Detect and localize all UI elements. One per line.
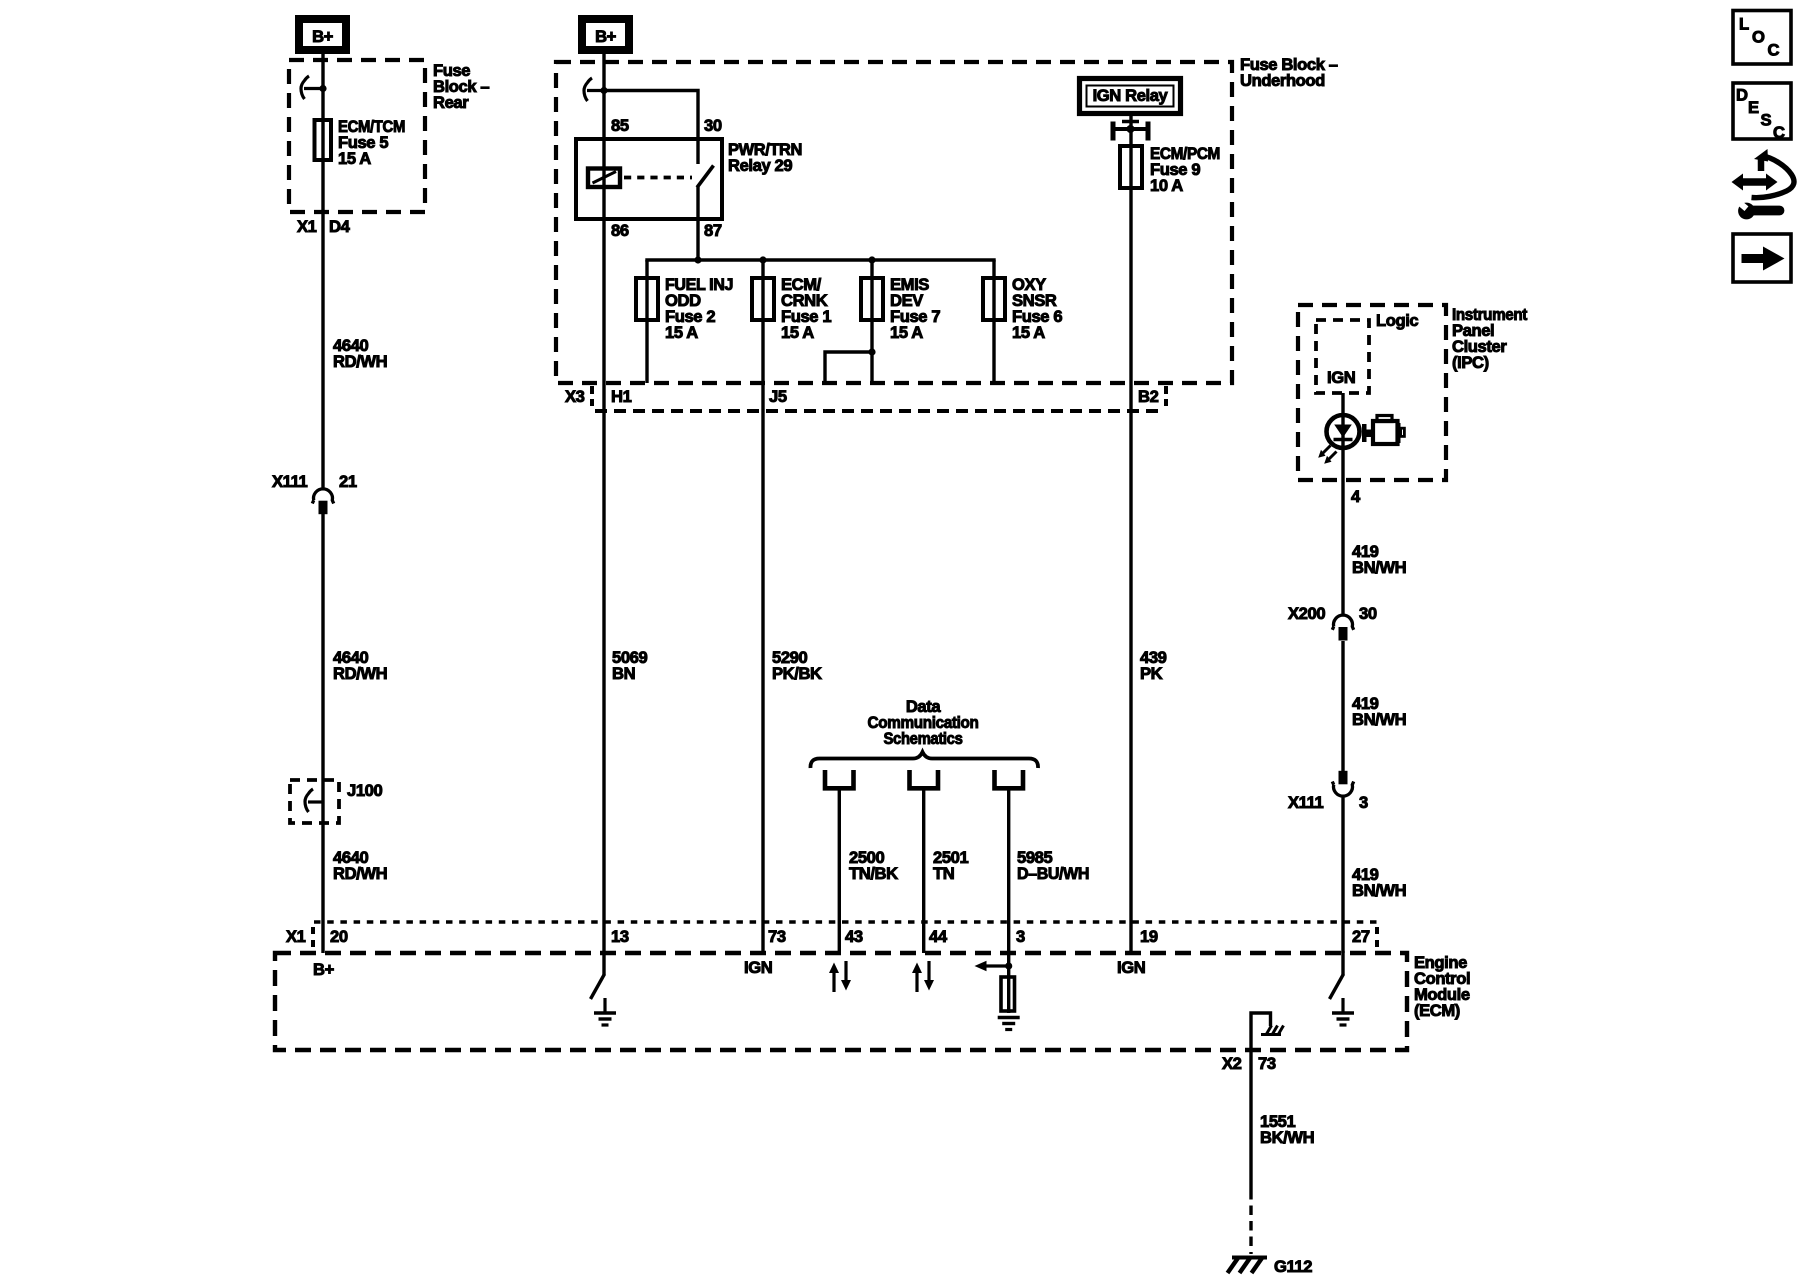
svg-text:30: 30 [704,116,722,135]
forward navigation box [1733,234,1791,282]
svg-text:TN: TN [933,864,954,883]
junction dot bus/fuse1 [759,256,766,263]
off-page connector bracket pin 43 [825,770,854,788]
svg-text:(ECM): (ECM) [1414,1001,1460,1020]
IGN Relay box [1080,79,1181,114]
svg-text:C: C [1768,40,1780,59]
svg-text:IGN: IGN [744,958,772,977]
svg-text:21: 21 [339,472,357,491]
splice hook inside J100 [305,789,313,812]
svg-text:X1: X1 [297,217,317,236]
DESC navigation box [1733,83,1791,139]
svg-text:RD/WH: RD/WH [333,352,387,371]
svg-text:73: 73 [1258,1054,1276,1073]
svg-text:73: 73 [768,927,786,946]
internal wire to case ground X2/73 [1251,1013,1271,1076]
wire data line to pin 44 (circuit 2501) [922,788,925,953]
wire stub to FUEL INJ fuse [645,260,648,383]
svg-text:O: O [1752,27,1765,46]
svg-text:D–BU/WH: D–BU/WH [1017,864,1089,883]
svg-text:PK/BK: PK/BK [772,664,822,683]
relay coil [588,169,620,188]
svg-text:20: 20 [330,927,348,946]
svg-text:S: S [1761,111,1772,130]
svg-text:10 A: 10 A [1150,176,1183,195]
fuse holder terminal below IGN relay [1111,122,1116,141]
wire stub to EMIS DEV fuse [870,260,873,383]
bidirectional data arrows at pin 43 [832,972,835,992]
case ground glyph inside ECM [1261,1033,1281,1036]
power feed B+ box (left) [299,19,346,50]
svg-text:IGN: IGN [1117,958,1145,977]
fuse ECM/PCM Fuse 9 10 A [1120,146,1142,188]
svg-text:L: L [1739,14,1749,33]
junction dot at B+ splice [319,85,326,92]
svg-text:E: E [1748,98,1759,117]
fuse ECM/CRNK Fuse 1 15 A [752,278,774,320]
internal ground at pin 13 [603,998,606,1013]
svg-text:IGN Relay: IGN Relay [1093,86,1169,105]
splice J100 dashed outline [290,780,339,823]
svg-text:27: 27 [1352,927,1370,946]
svg-text:B+: B+ [595,27,617,46]
instrument panel cluster dashed outline [1298,305,1446,480]
svg-text:TN/BK: TN/BK [849,864,898,883]
junction dot below EMIS fuse [868,348,875,355]
junction dot at pin 3 node [1005,962,1012,969]
bidirectional data arrows at pin 44 [915,972,918,992]
fuse block rear dashed outline [289,60,425,212]
fuse FUEL INJ ODD Fuse 2 15 A [636,278,658,320]
svg-text:30: 30 [1359,604,1377,623]
svg-text:BN/WH: BN/WH [1352,881,1406,900]
svg-text:86: 86 [611,221,629,240]
svg-text:Logic: Logic [1376,311,1418,330]
connector X3 strip bottom dashed line [595,409,1164,413]
splice hook in underhood block [584,78,592,101]
svg-text:RD/WH: RD/WH [333,864,387,883]
relay switch blade [697,166,714,188]
in-line connector X200 pin 30 [1332,615,1353,630]
internal ground below resistor [998,1016,1020,1020]
svg-text:15 A: 15 A [665,323,698,342]
svg-text:X111: X111 [272,472,307,491]
connector X1 separator at pin 20 [311,927,315,948]
fuse OXY SNSR Fuse 6 15 A [983,278,1005,320]
in-line connector X111 pin 21 [312,489,333,504]
junction dot 87/bus [694,256,701,263]
svg-text:X111: X111 [1288,793,1323,812]
internal switch to ground at pin 13 [602,951,605,975]
unspliced wire continuation to G112 (dashed) [1249,1190,1252,1254]
junction dot bus/fuse7 [868,256,875,263]
wire IGN through indicator to ECM pin 27 (circuit 419) [1341,393,1344,614]
svg-text:Relay 29: Relay 29 [728,156,792,175]
svg-text:85: 85 [611,116,629,135]
IPC logic block dashed outline [1316,320,1369,393]
svg-text:Rear: Rear [433,93,469,112]
wire IGN relay to ECM pin 19 (circuit 439) [1129,113,1132,953]
schematic navigation icon - double arrow [1732,174,1778,191]
svg-text:(IPC): (IPC) [1452,353,1489,372]
svg-text:B+: B+ [312,27,334,46]
wire jog from EMIS fuse to block edge [825,352,872,383]
svg-text:Underhood: Underhood [1240,71,1325,90]
svg-text:D: D [1736,86,1748,105]
svg-text:B2: B2 [1138,387,1159,406]
svg-text:G112: G112 [1274,1257,1312,1276]
svg-text:X1: X1 [286,927,306,946]
LED emission arrows [1323,446,1331,454]
wire data line to pin 3 (circuit 5985) [1007,788,1010,1013]
svg-text:4: 4 [1351,487,1361,506]
engine control module dashed outline [275,953,1407,1050]
wire relay pin 87 down to fuse bus [696,187,699,260]
off-page connector bracket pin 3 [995,770,1024,788]
svg-text:BN: BN [612,664,635,683]
fuse bus from relay 87 [645,258,995,261]
indicator LED circle [1327,415,1360,448]
svg-text:15 A: 15 A [1012,323,1045,342]
svg-text:19: 19 [1140,927,1158,946]
LOC navigation box [1733,11,1791,65]
svg-text:H1: H1 [611,387,632,406]
wire data line to pin 43 (circuit 2500) [838,788,841,953]
junction dot at underhood B+ splice [600,87,607,94]
svg-text:J100: J100 [347,781,382,800]
svg-text:C: C [1773,123,1785,142]
wire stub to OXY SNSR fuse [992,260,995,383]
forward arrow [1742,254,1765,263]
relay coil-to-switch dashed link [624,176,692,180]
schematic navigation icon - curved outline [1758,159,1765,172]
termination resistor at pin 3 [1001,977,1015,1011]
svg-text:X3: X3 [565,387,585,406]
in-line connector X111 pin 3 [1339,771,1348,785]
svg-text:15 A: 15 A [781,323,814,342]
svg-text:15 A: 15 A [890,323,923,342]
svg-text:B+: B+ [313,960,335,979]
brace over data wires [810,752,1038,768]
svg-text:BN/WH: BN/WH [1352,710,1406,729]
wire branch to relay pin 30 [604,91,698,165]
svg-text:Schematics: Schematics [884,729,963,748]
svg-text:RD/WH: RD/WH [333,664,387,683]
svg-text:BK/WH: BK/WH [1260,1128,1314,1147]
wire - B+ feed down to ECM pin 20 (circuit 4640) [321,53,324,488]
svg-text:3: 3 [1016,927,1025,946]
off-page connector bracket pin 44 [910,770,939,788]
ground G112 symbol [1232,1256,1267,1260]
svg-text:BN/WH: BN/WH [1352,558,1406,577]
svg-text:43: 43 [845,927,863,946]
svg-text:IGN: IGN [1327,368,1355,387]
splice hook in fuse block rear [301,76,309,99]
connector X3 separator [590,386,594,406]
data output arrow at pin 3 [986,964,1008,967]
svg-text:87: 87 [704,221,722,240]
internal ground at pin 27 [1341,998,1344,1013]
wire ECM to G112 (circuit 1551) [1249,1076,1252,1190]
svg-text:J5: J5 [769,387,787,406]
connector separator at pin 27 [1375,927,1379,948]
fuse EMIS DEV Fuse 7 15 A [861,278,883,320]
indicator LED diode [1334,425,1352,438]
check engine icon [1362,424,1367,442]
svg-text:PK: PK [1140,664,1163,683]
svg-text:X200: X200 [1288,604,1325,623]
svg-text:15 A: 15 A [338,149,371,168]
wire ECM/CRNK fuse down to ECM pin 73 (circuit 5290) [761,260,764,953]
ECM connector interface dotted line [314,920,1377,924]
relay PWR/TRN Relay 29 outline [576,139,722,219]
svg-text:3: 3 [1359,793,1368,812]
schematic navigation icon - wrench [1738,203,1755,220]
svg-text:D4: D4 [329,217,351,236]
connector B2 separator [1164,386,1168,406]
internal switch to ground at pin 27 [1341,951,1344,975]
svg-text:44: 44 [929,927,948,946]
fuse block underhood dashed outline [556,62,1232,383]
svg-text:13: 13 [611,927,629,946]
power feed B+ box (underhood) [582,19,629,50]
svg-text:X2: X2 [1222,1054,1242,1073]
wire - B+ feed through PWR/TRN relay coil to ECM pin 13 (circuit 5069) [602,53,605,953]
fuse ECM/TCM Fuse 5 15 A [315,120,332,160]
